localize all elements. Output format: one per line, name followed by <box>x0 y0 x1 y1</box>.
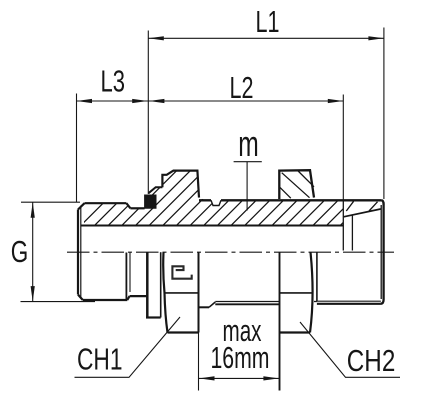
L2 right arrow <box>328 99 344 103</box>
max16 extension left <box>198 333 200 391</box>
L3 extension left <box>76 94 78 203</box>
relief notch <box>211 200 221 205</box>
svg-text:L2: L2 <box>230 70 254 105</box>
long thread (lower, between nuts) <box>215 302 279 305</box>
right end face outer <box>380 205 383 304</box>
right stud (lower half) <box>314 252 381 304</box>
L3 left arrow <box>77 99 93 103</box>
svg-text:L1: L1 <box>256 4 280 39</box>
left end face inner chamfer line <box>80 206 82 299</box>
svg-text:16mm: 16mm <box>211 340 270 375</box>
seal (black square) <box>145 195 156 208</box>
neck top edge <box>130 207 144 209</box>
thread OD top edge <box>85 202 127 204</box>
locknut block (upper section) <box>279 170 314 199</box>
L3 right arrow <box>132 99 148 103</box>
neck bottom edge <box>130 295 147 297</box>
right face inner line <box>380 205 382 299</box>
washer (lower half) <box>146 252 161 317</box>
svg-text:L3: L3 <box>101 64 126 99</box>
bottom edge thread <box>83 299 128 301</box>
L1 left arrow <box>148 36 164 40</box>
max16 dimension line <box>199 377 279 379</box>
G extension bottom <box>21 301 96 303</box>
top-right rounded corner <box>382 200 384 204</box>
center line (axis) <box>67 251 394 253</box>
thread runout vertical 1 <box>125 253 127 300</box>
L1 right arrow <box>368 36 384 40</box>
m underline + leader <box>234 162 262 211</box>
top-left chamfer <box>78 203 85 209</box>
right end internals (upper) <box>343 200 381 299</box>
G extension top <box>21 201 80 203</box>
L1 dimension line <box>148 37 384 39</box>
hex nut CH2 / locknut (lower half) <box>280 252 313 390</box>
svg-text:CH1: CH1 <box>77 342 123 377</box>
arrowheads <box>31 36 384 380</box>
CH2 leader <box>300 322 400 377</box>
G dimension line <box>32 202 34 301</box>
CH1 leader <box>75 317 181 377</box>
spiral mark inside nut <box>172 266 191 279</box>
bottom-left chamfer <box>78 295 83 300</box>
hex nut CH1 (lower half) <box>163 252 198 332</box>
collar right of nut1 <box>199 302 216 307</box>
L2/L3 dimension line <box>77 100 344 102</box>
svg-text:G: G <box>11 234 29 269</box>
left end face outer <box>77 210 79 295</box>
max16 left arrow <box>199 376 215 380</box>
max16 right arrow <box>263 376 279 380</box>
chamfer circle vertical <box>342 200 344 250</box>
washer upper profile <box>149 187 163 193</box>
svg-text:m: m <box>238 123 258 164</box>
bottom chamfer to neck <box>127 296 129 300</box>
cone line to right edge <box>344 209 381 217</box>
chamfer rim hatch lines <box>346 201 377 211</box>
hatch body section <box>66 165 414 240</box>
cone start vertical <box>351 215 353 250</box>
top chamfer down to neck <box>126 203 130 208</box>
G bottom arrow <box>31 286 35 302</box>
part outline: left threaded end <box>78 203 343 300</box>
fixed hex block (upper section) <box>162 171 199 198</box>
L2 extension right <box>342 95 344 201</box>
svg-text:CH2: CH2 <box>347 343 396 378</box>
L1 extension left <box>147 31 149 195</box>
body top edge <box>199 200 384 205</box>
G top arrow <box>31 202 35 218</box>
hatch locknut (opposite direction) <box>280 171 314 198</box>
L1 extension right <box>383 28 385 200</box>
bore line <box>81 225 344 227</box>
thread runout vertical 2 <box>129 253 131 293</box>
L2 left arrow <box>149 99 165 103</box>
